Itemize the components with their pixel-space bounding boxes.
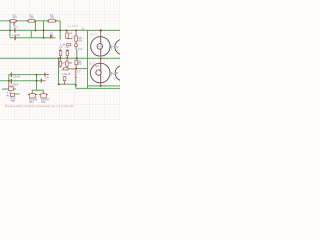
svg-text:M: M [116, 45, 118, 49]
svg-text:10k: 10k [50, 15, 55, 19]
svg-text:C5: C5 [72, 36, 76, 40]
svg-text:1.5k_B: 1.5k_B [62, 72, 70, 76]
svg-text:Regenerative receiver schemati: Regenerative receiver schematic rev 1.1 … [5, 104, 74, 108]
svg-text:48B: 48B [11, 98, 16, 102]
svg-text:1.5n50: 1.5n50 [12, 33, 20, 37]
svg-text:C6: C6 [66, 45, 70, 49]
svg-text:M: M [116, 71, 118, 75]
svg-text:MOT1: MOT1 [90, 33, 98, 37]
svg-text:4k7: 4k7 [13, 15, 18, 19]
svg-text:L_nF: L_nF [58, 67, 64, 71]
svg-text:D1 4148: D1 4148 [68, 24, 79, 28]
svg-text:47k: 47k [78, 38, 83, 42]
svg-text:R8: R8 [69, 61, 73, 65]
svg-text:2k2: 2k2 [78, 62, 83, 66]
svg-text:R7: R7 [62, 61, 66, 65]
svg-text:10k: 10k [29, 15, 34, 19]
svg-text:C4: C4 [59, 45, 63, 49]
svg-text:C8: C8 [45, 76, 49, 80]
svg-text:Q1: Q1 [10, 84, 14, 88]
svg-text:10nF: 10nF [13, 82, 19, 86]
svg-text:C7: C7 [77, 70, 81, 74]
svg-text:1.5n B: 1.5n B [13, 75, 21, 79]
svg-text:C3: C3 [50, 31, 54, 35]
svg-text:10n: 10n [78, 47, 83, 51]
svg-text:C1u: C1u [13, 25, 18, 29]
svg-text:R4: R4 [69, 31, 73, 35]
svg-text:MOT2: MOT2 [89, 62, 97, 66]
svg-text:M1: M1 [99, 45, 103, 49]
